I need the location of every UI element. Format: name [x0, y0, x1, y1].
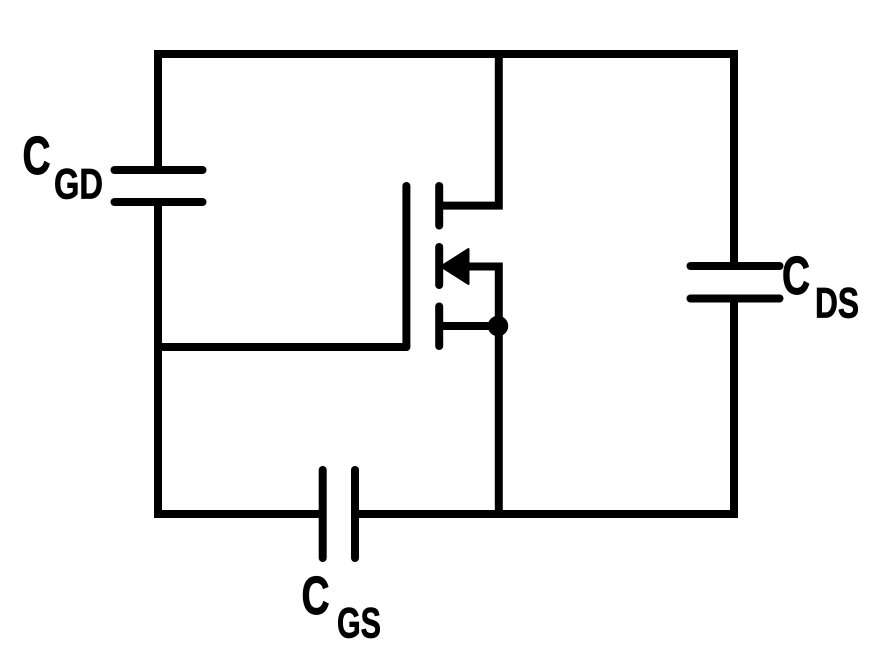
wire right rail upper (drain to CDS) — [730, 50, 738, 266]
capacitor CDS bottom plate — [691, 295, 780, 303]
label C DS — [782, 247, 859, 328]
wire body lead (arrow to source node) — [468, 267, 499, 327]
svg-text:C: C — [302, 567, 330, 626]
wire left rail upper (gate node, to CGD) — [154, 50, 162, 170]
svg-text:DS: DS — [815, 280, 859, 328]
transistor Q1 channel segment bottom — [435, 307, 443, 347]
transistor Q1 body arrow — [441, 249, 469, 284]
svg-text:GS: GS — [337, 600, 381, 648]
capacitor CGS left plate — [319, 470, 327, 558]
wire bottom rail right segment (source node) — [355, 510, 738, 518]
label C GD — [23, 127, 104, 209]
wire drain lead (channel to top rail) — [439, 54, 499, 206]
wire top rail (drain node) — [154, 50, 738, 58]
wire source lead (channel to bottom rail) — [439, 326, 499, 518]
capacitor CGD top plate — [115, 166, 203, 174]
svg-text:GD: GD — [54, 161, 103, 209]
capacitor CDS top plate — [691, 262, 780, 270]
wire right rail lower (CDS to bottom rail) — [730, 299, 738, 519]
transistor Q1 channel segment middle — [435, 247, 443, 285]
capacitor CGD bottom plate — [115, 198, 203, 206]
wire gate lead (left rail to MOSFET gate) — [158, 343, 406, 351]
capacitor CGS right plate — [351, 470, 359, 558]
svg-text:C: C — [23, 127, 51, 186]
transistor Q1 gate bar — [402, 186, 410, 347]
wire left rail lower (from CGD to bottom rail) — [154, 202, 162, 518]
junction dot source node — [488, 316, 509, 337]
transistor Q1 channel segment top — [435, 186, 443, 226]
svg-text:C: C — [782, 247, 810, 306]
label C GS — [302, 567, 382, 648]
wire bottom rail left segment (to CGS) — [154, 510, 323, 518]
